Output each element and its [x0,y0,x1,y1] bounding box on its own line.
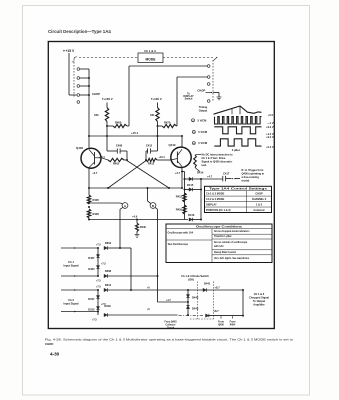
node B tail wire [155,207,157,209]
output tie wire [242,290,244,316]
svg-text:+15 V: +15 V [66,49,76,53]
svg-text:D304: D304 [105,241,112,245]
switch contact pos1 [77,68,80,71]
svg-text:D317: D317 [88,297,95,301]
svg-text:Ch 2 & 4 MODE: Ch 2 & 4 MODE [206,198,225,201]
waveform scale 2 marker [192,130,195,133]
diode D308 [104,274,107,277]
node A tail wire [120,207,123,209]
svg-text:Q450 (operating in: Q450 (operating in [242,171,265,175]
svg-text:+0.4 V: +0.4 V [266,146,274,149]
switch contact pos2 [77,77,80,80]
wire R406 to long rail [88,218,90,220]
resistor R641 [156,108,159,122]
resistor R413 [183,193,186,202]
gang dashed line right segment [163,57,213,59]
resistor R412 [146,158,157,161]
node B wire into diode gate [158,301,189,303]
node column x201 [200,179,202,220]
svg-text:+4.7: +4.7 [92,171,98,175]
svg-text:D416: D416 [188,213,195,217]
svg-text:ued.: ued. [202,163,208,167]
wire node641 down to rail [157,126,159,136]
diode D443 [186,306,189,309]
svg-text:C408: C408 [116,143,123,147]
table1 row DISPLAY [205,206,272,208]
svg-text:Set as chopped-mode indicators: Set as chopped-mode indicators [214,230,250,233]
svg-text:+7.5: +7.5 [101,263,106,266]
wire C408 left lead [107,150,117,152]
left emitter wire [88,168,90,195]
svg-text:a free-running: a free-running [242,175,260,179]
resistor R405 [87,195,90,204]
gang dashed line left segment [79,57,138,59]
chop pulse waveform [215,117,262,124]
gate vertical wire [187,290,189,315]
wire pos1 long run [129,65,207,67]
long lower rail y219 [89,219,188,221]
svg-text:4-30: 4-30 [50,351,60,356]
svg-text:D443: D443 [192,306,199,310]
switch contact CHOP [77,94,80,97]
svg-text:+7.5: +7.5 [96,243,101,246]
control settings table frame [205,186,272,212]
svg-text:D407: D407 [88,256,95,260]
svg-text:+7.5: +7.5 [92,318,97,321]
wire C408 right lead [120,150,127,152]
node A feed wire [88,202,90,204]
table1 row Ch 1 &amp; 3 MODE [205,195,272,197]
svg-text:1 & 3: 1 & 3 [256,203,263,206]
switch contact pos3 [77,85,80,88]
svg-text:+4.7: +4.7 [166,299,171,302]
svg-text:CHOP: CHOP [92,92,100,96]
right contact lone [207,100,210,103]
node between R405 R406 [88,206,90,208]
switch contact lone [77,101,80,104]
table1 row Ch 2 &amp; 4 MODE [205,201,272,203]
diode D407 [96,255,99,258]
wire down x129 [128,66,130,126]
svg-text:D415: D415 [187,183,194,187]
svg-text:Ch 1 & 3 Diode Switch: Ch 1 & 3 Diode Switch [181,274,209,278]
multivibrator waveform Q403 [214,127,261,134]
table2 right rules [212,233,272,235]
right wiper arrow [206,92,213,94]
multivibrator waveform Q413 [214,139,261,146]
svg-text:From: From [230,321,236,323]
diode gate dashed bottom [190,318,214,320]
diode D317 [96,296,99,299]
wire +100V right [157,103,159,108]
note bracket arrow [196,154,201,156]
Ch 3 lower row wire [61,311,98,313]
cross-coupling diagonal B [108,161,146,188]
svg-text:2 μSec: 2 μSec [232,148,241,152]
wire contact1 to bus [80,68,89,70]
transistor Q413 [171,147,191,167]
svg-text:5 V/CM: 5 V/CM [198,118,208,122]
oscilloscope conditions table frame [166,224,272,263]
svg-text:Amplifier: Amplifier [253,303,264,307]
svg-text:Timing: Timing [199,105,208,109]
svg-text:DISPLAY: DISPLAY [206,203,217,206]
cross-coupling diagonal A [127,161,169,188]
transistor Q403 [81,148,101,168]
resistor R416 [183,205,186,214]
wire node640 down to rail [106,126,108,136]
broken link dash-dot [179,315,204,317]
svg-text:Q403: Q403 [76,146,83,150]
table2 header rule [166,228,272,230]
wire rail to R449 [136,220,138,224]
wire R470 to x177 [176,125,179,127]
capacitor C412 [147,148,149,153]
svg-text:POSITION (Ch 1 & 3): POSITION (Ch 1 & 3) [206,209,231,212]
wire R641 to node [157,122,159,127]
diode gate dashed box right [213,282,215,320]
wire D416 to node column [192,219,201,221]
diode D314 [104,288,107,291]
diode D414 branch [184,178,186,180]
svg-text:Circuit Description—Type 1A4: Circuit Description—Type 1A4 [48,29,111,34]
wire down x177 [176,77,178,126]
svg-text:Type 1A4 Control Settings: Type 1A4 Control Settings [209,188,268,191]
svg-text:Ch 3: Ch 3 [68,298,74,302]
svg-text:To Output: To Output [253,299,265,303]
wire rail to C412 [157,136,159,151]
svg-text:R460: R460 [115,120,122,124]
svg-text:5 V/CM: 5 V/CM [198,141,208,145]
svg-text:C417: C417 [223,172,230,176]
table2 column divider [211,229,213,263]
wire D415 to node [192,189,201,191]
svg-text:1R: 1R [72,62,75,64]
left switch wafer dashed line [73,59,75,97]
svg-text:R470: R470 [164,120,171,124]
svg-text:+4.7: +4.7 [207,175,213,179]
svg-text:Circuit: Circuit [167,326,175,329]
svg-text:CHOP: CHOP [197,89,205,93]
svg-text:+15.1: +15.1 [131,131,139,135]
right contact pos1 [207,65,210,68]
svg-text:R449: R449 [140,226,146,229]
left base wire [101,157,103,159]
resistor R640 [105,108,108,122]
svg-text:Ch 1: Ch 1 [68,260,74,264]
svg-text:+8.7: +8.7 [214,309,220,313]
sawtooth timing waveform [214,106,262,114]
resistor R460 [113,124,127,127]
capacitor C417 [222,176,224,182]
svg-text:CHOP: CHOP [255,193,263,196]
svg-text:D319: D319 [104,304,111,308]
ground below R449 [135,234,140,236]
svg-text:Q450: Q450 [218,323,224,326]
capacitor C408 [116,148,118,153]
diode D319 [104,313,107,316]
svg-text:Time/Cm 1 μSec: Time/Cm 1 μSec [214,236,232,238]
svg-text:Oscilloscope with 1A4: Oscilloscope with 1A4 [168,232,194,235]
Q413 collector wire [181,136,183,147]
svg-text:Switch: Switch [185,98,193,101]
svg-text:R454: R454 [230,323,236,326]
svg-text:Input Signal: Input Signal [63,264,78,268]
svg-text:+10.4: +10.4 [159,156,166,159]
svg-text:Set on outside of oscilloscope: Set on outside of oscilloscope [214,241,248,244]
svg-text:—1 V: —1 V [267,122,274,125]
emitter interconnect wire y188 [89,187,182,189]
wire R640 to node [106,122,108,127]
svg-text:Input Signal: Input Signal [63,302,78,306]
wire C417 right [226,178,232,180]
diode D415 [189,188,192,191]
svg-text:D404: D404 [88,267,95,271]
svg-text:Vert. defl. lights. See wavefo: Vert. defl. lights. See waveforms [214,257,250,260]
svg-text:CHOP.: CHOP. [45,342,54,346]
diode D415 branch [184,189,186,191]
node B feed wire [147,187,149,189]
wire D314 out [107,289,131,291]
resistor R402 [108,158,124,161]
svg-text:Signal to Q430 discontin-: Signal to Q430 discontin- [202,160,233,164]
svg-text:+7.5: +7.5 [96,285,101,288]
svg-text:+4.7: +4.7 [175,171,181,175]
svg-text:C412: C412 [146,143,153,147]
wire contact4 to bus [80,94,89,96]
wire D304 out [107,247,120,249]
svg-text:R413: R413 [176,195,183,199]
svg-text:Ch 1 & 3: Ch 1 & 3 [254,292,265,296]
svg-text:Collector: Collector [166,324,176,327]
schematic border frame [48,42,274,329]
diode D304 [104,246,107,249]
wire +15V down to wiper [68,53,70,95]
svg-text:R406: R406 [93,212,100,216]
wire D441 to out [206,289,243,291]
svg-text:R412: R412 [148,162,155,166]
wire node to C417 [201,178,223,180]
Ch 1 lower row wire [61,275,98,277]
table2 left split [166,239,212,241]
wire D444 to out [209,315,243,317]
diode D313 [96,307,99,310]
svg-text:MODE: MODE [146,57,157,61]
svg-text:with 1A4: with 1A4 [214,245,224,248]
svg-text:R402: R402 [113,162,120,166]
wire contact3 to bus [80,85,89,87]
wire D414 to node [192,178,201,180]
diode D441 [203,288,206,291]
Ch 3 input row wire [61,289,98,291]
row3 continue to gate [131,289,203,291]
svg-text:Ch 1 & 3 Vert. Drive: Ch 1 & 3 Vert. Drive [202,156,226,160]
svg-text:+8.7: +8.7 [215,286,221,290]
svg-text:641: 641 [150,113,155,117]
svg-text:D313: D313 [88,308,95,312]
waveform scale 3 marker [192,142,195,145]
svg-text:Output: Output [199,108,208,112]
svg-text:D308: D308 [105,269,112,273]
wire node to R460 [107,125,113,127]
wire node to R470 [158,125,163,127]
right contact pos3 [207,83,210,86]
right base wire [157,159,171,161]
svg-text:Sweep Rate 2 μs/cm: Sweep Rate 2 μs/cm [214,251,236,254]
svg-text:R. H. Trigger from: R. H. Trigger from [242,168,264,172]
Ch 3 clamp wire [97,290,99,315]
node B junction on row2 [157,275,159,277]
right switch wafer dashed line [212,60,214,102]
svg-text:640: 640 [94,113,99,117]
waveform scale 1 marker [192,119,195,122]
diode D414 [189,177,192,180]
right contact pos2 [207,76,210,79]
svg-text:+0.5: +0.5 [268,114,274,117]
node A junction on row1 [119,247,121,249]
svg-text:+9.2 V: +9.2 V [266,126,274,129]
svg-text:+100 V: +100 V [104,97,113,101]
svg-text:CHANNEL 3: CHANNEL 3 [252,198,267,201]
diode D404 [96,266,99,269]
wire R460 to x129 [127,125,129,127]
Ch 1 clamp wire [97,248,99,276]
resistor R449 [136,223,139,232]
svg-text:R416: R416 [176,208,183,212]
wire R402 to node [124,159,127,161]
wire D308 out [107,275,157,277]
node B circle [150,203,156,209]
svg-text:mode): mode) [242,178,250,182]
wire R449 to ground [136,232,138,235]
wire contact2 to bus [80,77,89,79]
svg-text:Chopped Signal: Chopped Signal [249,296,269,300]
svg-text:5 V/CM: 5 V/CM [198,130,208,134]
wire wiper to ground [213,92,219,94]
+15.1 rail wire [89,135,182,137]
diode D444 [206,314,209,317]
svg-text:+7.5: +7.5 [96,279,101,282]
svg-text:D442: D442 [192,295,199,299]
right chain bend [182,171,185,173]
svg-text:D314: D314 [105,283,112,287]
diode D416 on rail [189,218,192,221]
Ch 1 input row wire [61,247,98,249]
svg-text:Fig. 4-28. Schematic diagram o: Fig. 4-28. Schematic diagram of the Ch 1… [45,338,294,342]
svg-text:+4.9: +4.9 [132,214,138,218]
svg-text:Test Oscilloscope: Test Oscilloscope [168,243,189,246]
ground at right switch [217,96,222,98]
svg-text:Q413: Q413 [169,143,176,147]
svg-text:+100 V: +100 V [153,97,162,101]
wire C412 right lead [151,150,158,152]
table1 column divider [246,191,248,213]
wire C412 left lead [146,150,148,152]
MODE switch box [138,53,163,63]
svg-text:Ch 1 & 3 MODE: Ch 1 & 3 MODE [206,193,225,196]
svg-text:D414: D414 [197,171,204,175]
resistor R406 [87,209,90,218]
table1 header rule [205,190,272,192]
svg-text:Oscilloscope Conditions: Oscilloscope Conditions [196,226,243,229]
wire D319 out [107,314,177,316]
svg-text:Centered: Centered [254,209,265,212]
wire row1 corner to x131 [120,247,131,249]
wire node to R412 [145,159,147,161]
node A circle [122,203,128,209]
wire pos2 run [177,76,207,78]
diode gate dashed box left [197,282,199,320]
trigger note arrow [235,178,241,180]
wire rail to C408 [106,136,108,151]
svg-text:R405: R405 [93,198,100,202]
svg-text:(Off): (Off) [188,277,194,281]
svg-text:D441: D441 [204,282,211,286]
resistor R470 [162,124,177,127]
wire +100V left [106,103,108,108]
svg-text:Ch 1 & 3: Ch 1 & 3 [144,49,156,53]
svg-text:From Q463: From Q463 [165,321,178,324]
svg-text:No DC interconnection to: No DC interconnection to [202,153,234,157]
svg-text:From: From [218,321,224,323]
diode D442 [186,295,189,298]
left vertical bus wire [88,69,90,148]
svg-text:+9.2 V: +9.2 V [266,136,274,139]
right emitter wire [181,167,183,188]
